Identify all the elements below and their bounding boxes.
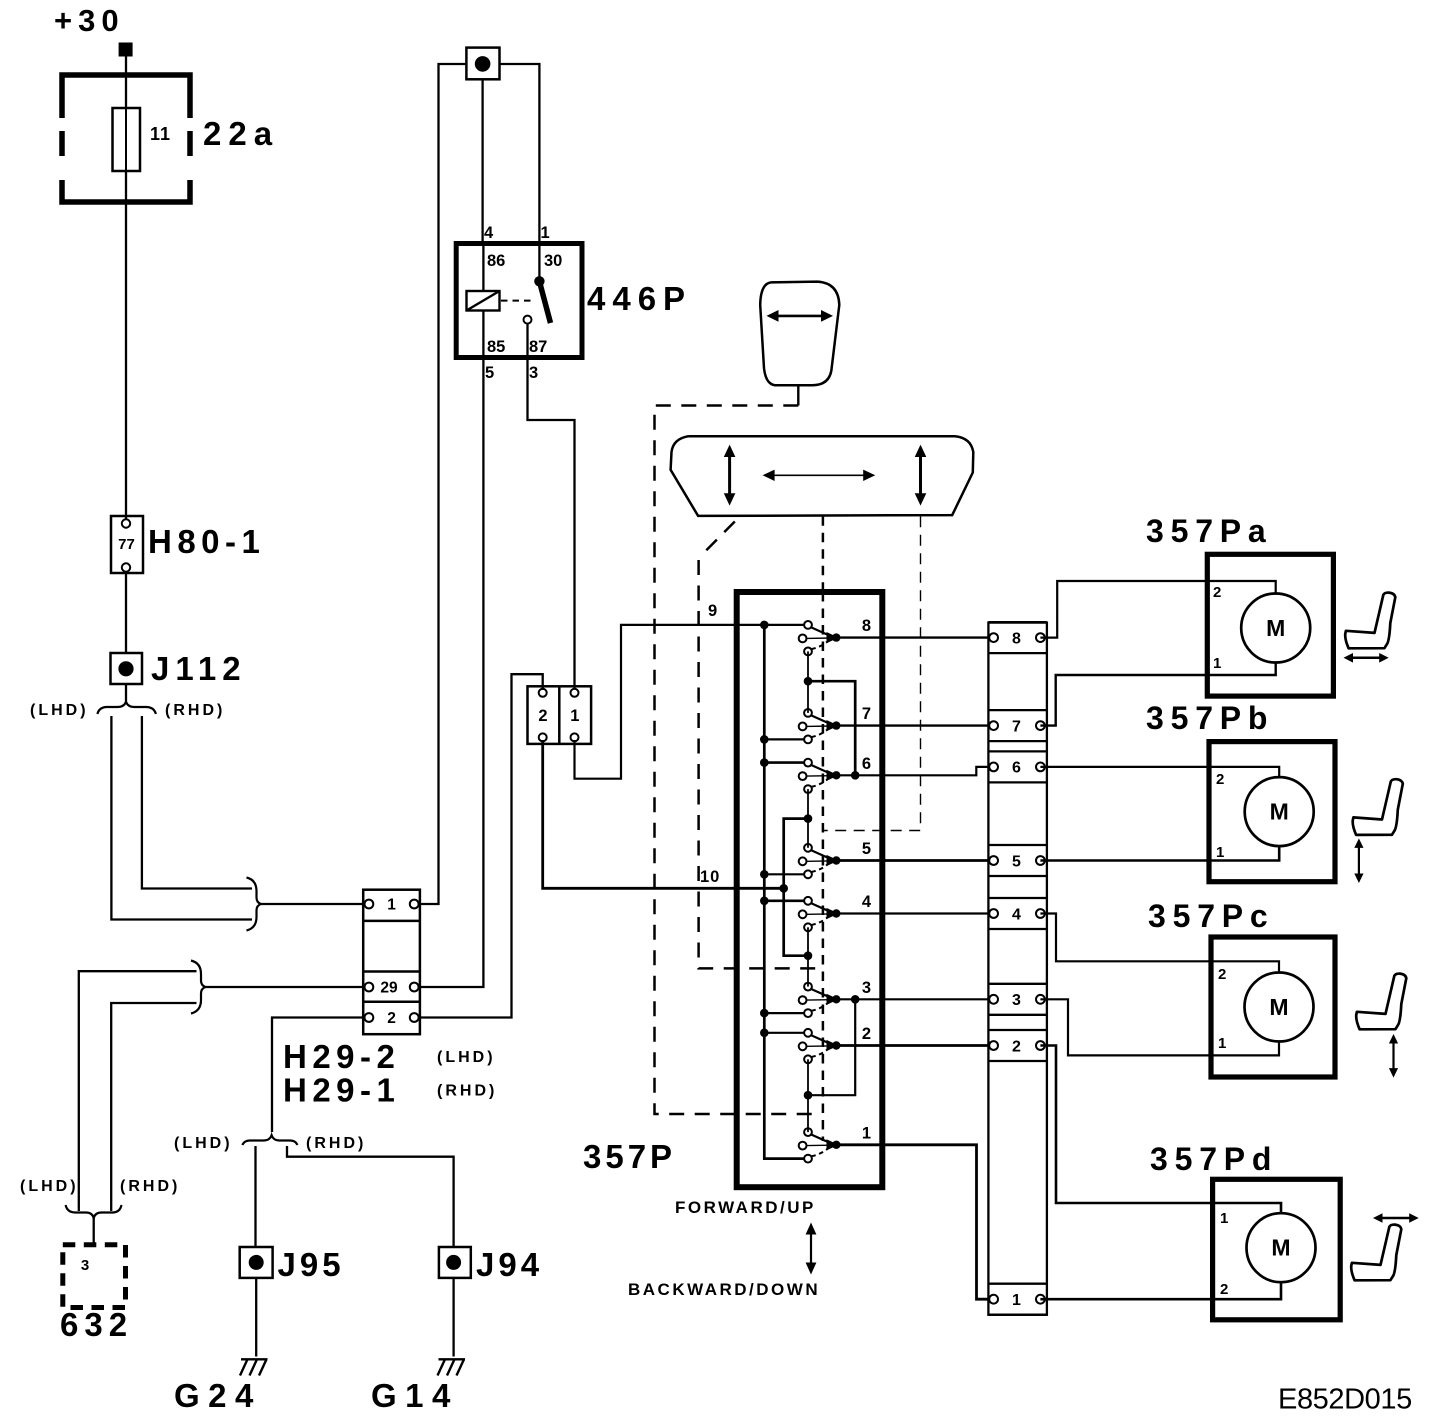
svg-text:1: 1 — [1220, 1210, 1228, 1227]
svg-text:G24: G24 — [174, 1377, 262, 1414]
splice J95 — [240, 1247, 273, 1278]
label (RHD) at 632 branch — [120, 1178, 180, 1195]
relay pin label 1 — [541, 224, 550, 242]
label 357Pc — [1148, 898, 1275, 934]
wire splice to relay pin 4/86 — [481, 79, 483, 243]
relay pin label 87 — [529, 338, 547, 356]
connector H29 (pins 1, 29, 2) — [363, 890, 420, 1034]
switch element 4 in 357P — [799, 897, 841, 931]
relay mechanical dashed link — [501, 300, 534, 302]
label H80-1 — [148, 523, 265, 560]
wire rail pin 8 to motor 357Pa pin 2 — [1040, 581, 1275, 638]
relay pin label 3 — [529, 364, 538, 382]
svg-text:6: 6 — [1012, 760, 1021, 777]
svg-text:M: M — [1266, 615, 1285, 641]
label J112 — [151, 650, 247, 687]
svg-text:5: 5 — [862, 840, 871, 858]
svg-text:1: 1 — [1218, 1035, 1226, 1052]
wire output 8 to rail pin 8 — [836, 636, 993, 638]
wire J112 to LHD/RHD branch — [125, 684, 127, 701]
label (RHD) at ground branch — [306, 1135, 366, 1152]
label H29-2 — [283, 1038, 400, 1075]
svg-text:357P: 357P — [583, 1138, 676, 1175]
connector H80-1 (pin 77) — [111, 516, 143, 573]
switch pad actuator — [671, 436, 974, 516]
label (RHD) at J112 branch — [165, 702, 225, 719]
wire link switch8-chain to output 6 — [808, 681, 860, 779]
wire relay 85 to H29 pin 29 — [419, 358, 484, 988]
knob horizontal double arrow — [767, 310, 834, 322]
seat icon for 357Pd (backrest) — [1351, 1213, 1419, 1280]
wire RHD branch to J94 — [287, 1146, 454, 1247]
wire +30 square to fuse 22a — [125, 57, 127, 77]
wire rail pin 1 to motor 357Pd pin 2 — [1040, 1281, 1281, 1299]
relay pin label 4 — [484, 224, 494, 242]
svg-text:357Pc: 357Pc — [1148, 898, 1275, 934]
label switch output 3 — [862, 979, 871, 997]
svg-text:(LHD): (LHD) — [20, 1178, 79, 1195]
switch element 3 in 357P — [799, 983, 841, 1017]
ground G14 symbol — [438, 1359, 466, 1375]
wire output 4 to rail pin 4 — [836, 912, 993, 914]
relay contact wire 30 — [538, 244, 540, 280]
label 10 — [700, 868, 720, 886]
svg-text:7: 7 — [1012, 718, 1021, 735]
dashed link pad-center to mechanism — [822, 516, 825, 590]
wire switch 6 bottom chain — [804, 789, 813, 848]
branch symbol LHD/RHD above J95/J94 — [242, 1135, 297, 1145]
wire 632 RHD branch — [111, 1003, 196, 1211]
power feed node +30 label — [54, 3, 125, 38]
svg-text:(LHD): (LHD) — [174, 1135, 233, 1152]
svg-text:6: 6 — [862, 755, 871, 773]
svg-text:2: 2 — [1216, 771, 1224, 788]
dashed link pad-left diagonal — [699, 522, 820, 969]
wire splice to relay pin 1/30 — [500, 64, 540, 244]
branch symbol LHD/RHD below J112 — [97, 702, 155, 714]
svg-text:2: 2 — [387, 1010, 396, 1027]
switch knob actuator — [760, 282, 839, 386]
svg-text:2: 2 — [1220, 1281, 1228, 1298]
wire bypass chain to switch 3 top — [784, 819, 813, 960]
switch pack 357P body — [737, 592, 883, 1187]
svg-text:H29-2: H29-2 — [283, 1038, 400, 1075]
label 632 — [60, 1306, 133, 1343]
wire rail pin 4 to motor 357Pc pin 2 — [1040, 914, 1279, 974]
splice J112 — [111, 653, 143, 684]
label (RHD) for H29-1 — [437, 1083, 497, 1100]
label BACKWARD/DOWN — [628, 1280, 820, 1299]
relay pin label 30 — [544, 252, 562, 270]
svg-text:3: 3 — [81, 1257, 89, 1274]
svg-text:5: 5 — [485, 364, 494, 382]
wire switch 2 bottom to switch 1 top — [804, 1059, 813, 1132]
label FORWARD/UP — [675, 1198, 816, 1217]
forward/backward double arrow — [806, 1223, 817, 1275]
relay pin label 85 — [487, 338, 505, 356]
dashed link pad-right thin — [824, 516, 921, 830]
svg-text:86: 86 — [487, 252, 505, 270]
svg-text:(LHD): (LHD) — [437, 1049, 496, 1066]
svg-text:632: 632 — [60, 1306, 133, 1343]
relay coil wire 85 — [482, 311, 484, 358]
wire relay 87/3 to inline connector pin 1 — [528, 324, 575, 688]
label G24 — [174, 1377, 262, 1414]
wire output 6 to rail pin 6 — [836, 767, 993, 775]
svg-text:22a: 22a — [203, 115, 279, 152]
merge bracket at H29 pin 29 — [191, 961, 206, 1014]
svg-text:357Pb: 357Pb — [1146, 700, 1274, 736]
mechanical dashed link through switches — [822, 592, 825, 1141]
svg-text:2: 2 — [1012, 1038, 1021, 1055]
relay contact arm — [534, 276, 550, 323]
relay pin label 86 — [487, 252, 505, 270]
motor 357Pc — [1211, 937, 1335, 1077]
wire bus stub to switch 5 bottom — [760, 870, 805, 879]
svg-text:4: 4 — [484, 224, 494, 242]
svg-text:446P: 446P — [587, 280, 692, 317]
svg-text:87: 87 — [529, 338, 547, 356]
svg-text:29: 29 — [380, 980, 398, 997]
wire switch 8 bottom to switch 7 top — [804, 651, 813, 713]
connector rail pins 8-1 — [988, 622, 1047, 1315]
splice box with junction dot (top) — [466, 48, 499, 80]
seat icon for 357Pb (front height) — [1353, 779, 1403, 883]
wire link output 3 to switch2-chain — [808, 995, 860, 1095]
label switch output 7 — [862, 705, 871, 723]
drawing number E852D015 — [1278, 1384, 1412, 1416]
wire merge to component 632 — [93, 1218, 95, 1245]
svg-text:8: 8 — [862, 617, 871, 635]
wire J95 to ground G24 — [255, 1278, 257, 1357]
wire rail pin 6 to motor 357Pb pin 2 — [1040, 767, 1279, 778]
svg-text:E852D015: E852D015 — [1278, 1384, 1412, 1416]
svg-text:1: 1 — [570, 707, 579, 725]
wire output 7 to rail pin 7 — [836, 724, 993, 726]
splice J94 — [439, 1247, 471, 1278]
svg-text:2: 2 — [1218, 966, 1226, 983]
svg-text:+30: +30 — [54, 3, 125, 38]
fuse label 22a — [203, 115, 279, 152]
wire rail pin 2 to motor 357Pd pin 1 — [1040, 1046, 1281, 1215]
svg-text:4: 4 — [862, 893, 872, 911]
svg-text:4: 4 — [1012, 906, 1021, 923]
wire 632 LHD branch — [79, 971, 197, 1211]
relay coil wire 86 — [482, 244, 484, 293]
seat icon for 357Pa (slide) — [1344, 593, 1396, 663]
wire 9 inline connector pin 1 to switch pack — [575, 625, 807, 779]
inline connector (pins 2 and 1) — [528, 686, 592, 744]
label (LHD) at ground branch — [174, 1135, 233, 1152]
label (LHD) for H29-2 — [437, 1049, 496, 1066]
wire LHD branch down — [111, 716, 252, 920]
wire H29 pin 2 to ground branch — [272, 1018, 365, 1133]
svg-text:H29-1: H29-1 — [283, 1072, 400, 1109]
svg-text:3: 3 — [529, 364, 538, 382]
svg-text:M: M — [1271, 1235, 1290, 1261]
svg-text:3: 3 — [1012, 992, 1021, 1009]
svg-text:85: 85 — [487, 338, 505, 356]
svg-text:J94: J94 — [476, 1246, 543, 1283]
switch element 8 in 357P — [799, 621, 841, 655]
svg-text:1: 1 — [1012, 1292, 1021, 1309]
label 357P — [583, 1138, 676, 1175]
svg-text:10: 10 — [700, 868, 720, 886]
svg-text:J112: J112 — [151, 650, 247, 687]
label J95 — [278, 1246, 345, 1283]
wire rail pin 3 to motor 357Pc pin 1 — [1040, 999, 1279, 1055]
wire splice to H29 pin 1 — [419, 64, 467, 904]
pad right vertical double arrow — [915, 445, 927, 506]
wire switch 4 bottom to switch 3 top — [807, 927, 809, 986]
svg-text:H80-1: H80-1 — [148, 523, 265, 560]
label G14 — [371, 1377, 459, 1414]
label (LHD) at J112 branch — [30, 702, 89, 719]
relay contact 87 — [524, 316, 532, 324]
label 446P — [587, 280, 692, 317]
svg-text:J95: J95 — [278, 1246, 345, 1283]
node junction wire 10 on bypass — [779, 884, 788, 893]
wire fuse 22a to connector H80-1 — [125, 202, 127, 519]
wire output 2 to rail pin 2 — [836, 1044, 993, 1047]
wire rail pin 5 to motor 357Pb pin 1 — [1040, 846, 1279, 861]
svg-text:5: 5 — [1012, 853, 1021, 870]
wire RHD branch down — [142, 716, 252, 889]
wire bus stub to switch 7 bottom — [760, 735, 805, 744]
svg-text:(RHD): (RHD) — [437, 1083, 497, 1100]
wire bus stub to switch 3 bottom — [760, 1009, 805, 1018]
svg-text:G14: G14 — [371, 1377, 459, 1414]
svg-text:357Pd: 357Pd — [1150, 1141, 1278, 1177]
relay pin label 5 — [485, 364, 494, 382]
switch element 5 in 357P — [799, 844, 841, 878]
svg-text:3: 3 — [862, 979, 871, 997]
wire LHD branch to J95 — [254, 1146, 256, 1247]
label switch output 2 — [862, 1025, 871, 1043]
svg-text:2: 2 — [862, 1025, 871, 1043]
relay coil — [467, 291, 500, 311]
pad left vertical double arrow — [724, 445, 736, 506]
svg-text:(LHD): (LHD) — [30, 702, 89, 719]
svg-text:30: 30 — [544, 252, 562, 270]
motor 357Pd — [1213, 1179, 1341, 1320]
label switch output 8 — [862, 617, 871, 635]
pad horizontal double arrow — [763, 470, 876, 481]
label switch output 1 — [862, 1124, 871, 1142]
node junction wire 9 on common bus — [760, 621, 769, 630]
label 9 — [708, 602, 717, 620]
motor 357Pb — [1209, 742, 1335, 882]
svg-text:1: 1 — [1216, 844, 1224, 861]
merge bracket to H29 pin 1 — [247, 878, 262, 931]
seat icon for 357Pc (rear height) — [1356, 974, 1406, 1078]
svg-text:M: M — [1270, 799, 1289, 825]
svg-text:357Pa: 357Pa — [1146, 513, 1273, 549]
common bus wire — [764, 625, 804, 1159]
dashed link knob to switch pack — [655, 406, 821, 1115]
wire output 3 to rail pin 3 — [836, 998, 993, 1000]
motor 357Pa — [1207, 554, 1333, 696]
label 357Pd — [1150, 1141, 1278, 1177]
svg-text:1: 1 — [541, 224, 550, 242]
label H29-1 — [283, 1072, 400, 1109]
svg-text:1: 1 — [1213, 655, 1221, 672]
component 632 (dashed outline, pin 3) — [63, 1245, 126, 1308]
label switch output 4 — [862, 893, 872, 911]
svg-text:(RHD): (RHD) — [306, 1135, 366, 1152]
relay 446P body — [456, 244, 582, 358]
svg-text:1: 1 — [862, 1124, 871, 1142]
label 357Pa — [1146, 513, 1273, 549]
switch element 2 in 357P — [799, 1029, 841, 1063]
label switch output 6 — [862, 755, 871, 773]
wire H29 pin 2 to inline connector pin 2 — [419, 674, 543, 1017]
wire knob stub — [797, 385, 799, 405]
svg-text:BACKWARD/DOWN: BACKWARD/DOWN — [628, 1280, 820, 1299]
svg-text:2: 2 — [1213, 584, 1221, 601]
wire bus stub to switch 4 top — [760, 897, 805, 906]
wire 10 inline connector pin 2 to switch pack — [543, 740, 786, 888]
svg-text:M: M — [1269, 994, 1288, 1020]
label (LHD) at 632 branch — [20, 1178, 79, 1195]
wire output 5 to rail pin 5 — [836, 859, 993, 862]
wire bus stub to switch 2 top — [760, 1029, 805, 1038]
label 357Pb — [1146, 700, 1274, 736]
branch merge symbol above 632 — [66, 1205, 122, 1218]
svg-text:FORWARD/UP: FORWARD/UP — [675, 1198, 816, 1217]
power feed terminal square — [119, 43, 133, 57]
svg-text:9: 9 — [708, 602, 717, 620]
switch element 6 in 357P — [799, 759, 841, 793]
wire H80-1 to splice J112 — [125, 571, 127, 653]
svg-text:7: 7 — [862, 705, 871, 723]
svg-text:(RHD): (RHD) — [120, 1178, 180, 1195]
wire output 1 to rail pin 1 — [836, 1145, 993, 1299]
wire rail pin 7 to motor 357Pa pin 1 — [1040, 663, 1275, 726]
svg-text:8: 8 — [1012, 630, 1021, 647]
svg-text:(RHD): (RHD) — [165, 702, 225, 719]
switch element 7 in 357P — [799, 709, 841, 743]
wire merge bracket to H29 pin 1 — [261, 903, 365, 905]
svg-text:77: 77 — [118, 536, 135, 553]
label J94 — [476, 1246, 543, 1283]
svg-text:1: 1 — [387, 897, 396, 914]
svg-text:2: 2 — [538, 707, 547, 725]
label switch output 5 — [862, 840, 871, 858]
wire bracket to H29 pin 29 — [206, 986, 365, 988]
fuse 22a (position 11) — [57, 75, 195, 202]
ground G24 symbol — [240, 1359, 268, 1375]
svg-text:11: 11 — [150, 124, 171, 144]
wire bus stub to switch 6 top — [760, 758, 805, 767]
wire J94 to ground G14 — [452, 1278, 454, 1357]
switch element 1 in 357P — [799, 1128, 841, 1162]
